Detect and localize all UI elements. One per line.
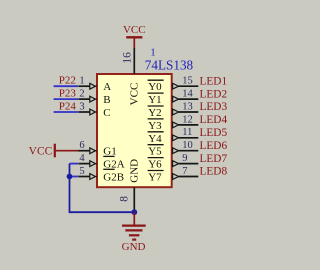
part number 74LS138 [145, 57, 194, 72]
svg-text:B: B [103, 94, 110, 106]
wire net P22 [54, 85, 78, 87]
wire enable to ground (vertical+bottom) [70, 164, 135, 213]
pin 14 (Y1) [173, 89, 199, 103]
power port VCC top [123, 24, 146, 48]
svg-text:GND: GND [122, 241, 146, 253]
svg-text:LED1: LED1 [200, 75, 228, 87]
svg-text:G2B: G2B [103, 172, 124, 184]
svg-text:GND: GND [128, 159, 140, 183]
svg-text:LED8: LED8 [200, 166, 228, 178]
svg-text:16: 16 [121, 52, 133, 64]
pin name Y5 (active low) [148, 145, 164, 158]
svg-text:VCC: VCC [128, 83, 140, 106]
pin name Y6 (active low) [148, 158, 164, 171]
net label LED3 [200, 101, 228, 113]
svg-text:A: A [103, 81, 111, 93]
pin name VCC (vertical) [128, 83, 140, 106]
svg-text:P23: P23 [59, 88, 77, 100]
svg-text:LED5: LED5 [200, 127, 228, 139]
svg-text:Y1: Y1 [148, 94, 161, 106]
pin name C [103, 107, 110, 119]
pin 4 (G2A) [78, 153, 97, 167]
svg-text:4: 4 [79, 153, 85, 164]
pin name A [103, 81, 111, 93]
pin 11 (Y4) [173, 127, 199, 141]
svg-text:10: 10 [182, 140, 193, 151]
pin name B [103, 94, 110, 106]
pin name Y1 (active low) [148, 93, 164, 106]
wire G2B stub [70, 176, 79, 178]
svg-text:LED4: LED4 [200, 114, 228, 126]
svg-text:74LS138: 74LS138 [145, 57, 194, 72]
pin name Y0 (active low) [148, 80, 164, 93]
svg-text:LED7: LED7 [200, 153, 228, 165]
pin 2 (B) [78, 89, 97, 103]
net label LED4 [200, 114, 228, 126]
svg-text:LED2: LED2 [200, 88, 228, 100]
svg-text:Y2: Y2 [148, 107, 161, 119]
svg-text:7: 7 [182, 166, 187, 177]
svg-text:VCC: VCC [29, 145, 53, 157]
net label LED5 [200, 127, 228, 139]
pin 6 (G1) [78, 140, 97, 154]
pin 15 (Y0) [173, 76, 199, 90]
svg-text:6: 6 [79, 140, 84, 151]
svg-text:VCC: VCC [123, 24, 146, 36]
pin 16 VCC [121, 48, 134, 74]
svg-text:Y3: Y3 [148, 120, 162, 132]
wire net P24 [54, 111, 78, 113]
net label LED1 [200, 75, 228, 87]
net label LED6 [200, 140, 228, 152]
junction at pin 8 / ground [131, 209, 137, 215]
wire G2A stub [70, 163, 79, 165]
pin 9 (Y6) [173, 153, 199, 167]
svg-text:Y6: Y6 [148, 159, 162, 171]
power port VCC left [29, 144, 55, 158]
pin name Y3 (active low) [148, 119, 164, 132]
svg-text:Y7: Y7 [148, 172, 162, 184]
net label P22 [59, 75, 76, 87]
pin 5 (G2B) [78, 166, 97, 180]
net label LED2 [200, 88, 228, 100]
svg-text:1: 1 [79, 76, 84, 87]
svg-text:12: 12 [182, 114, 193, 125]
pin 8 GND [119, 187, 135, 212]
svg-text:8: 8 [119, 196, 131, 202]
wire VCC to pin 6 [55, 150, 79, 152]
ground symbol GND [122, 212, 146, 253]
svg-text:Y5: Y5 [148, 146, 162, 158]
pin 13 (Y2) [173, 101, 199, 115]
pin name G2A (active low) [103, 156, 124, 170]
designator 1 [150, 47, 156, 59]
svg-text:Y4: Y4 [148, 133, 162, 145]
pin 12 (Y3) [173, 114, 199, 128]
pin 7 (Y7) [173, 166, 199, 180]
pin name Y2 (active low) [148, 106, 164, 119]
svg-text:P24: P24 [59, 100, 77, 112]
pin name GND (vertical) [128, 159, 140, 183]
svg-text:P22: P22 [59, 75, 76, 87]
svg-text:5: 5 [79, 166, 84, 177]
svg-text:2: 2 [79, 89, 84, 100]
pin name Y4 (active low) [148, 132, 164, 145]
net label LED8 [200, 166, 228, 178]
svg-text:14: 14 [182, 89, 193, 100]
svg-text:13: 13 [182, 101, 193, 112]
pin 3 (C) [78, 101, 97, 115]
svg-text:9: 9 [182, 153, 187, 164]
svg-text:LED6: LED6 [200, 140, 228, 152]
pin 1 (A) [78, 76, 97, 90]
svg-text:Y0: Y0 [148, 81, 162, 93]
net label P23 [59, 88, 77, 100]
pin name G1 [103, 146, 116, 158]
svg-text:3: 3 [79, 101, 84, 112]
net label P24 [59, 100, 77, 112]
svg-text:C: C [103, 107, 110, 119]
pin name Y7 (active low) [148, 171, 164, 184]
IC U1 74LS138 body [97, 74, 172, 187]
pin name G2B (active low) [103, 169, 124, 183]
net label LED7 [200, 153, 228, 165]
svg-text:11: 11 [182, 127, 192, 138]
svg-text:LED3: LED3 [200, 101, 228, 113]
junction at G2B [67, 174, 73, 180]
wire net P23 [54, 98, 78, 100]
pin 10 (Y5) [173, 140, 199, 154]
svg-text:15: 15 [182, 76, 193, 87]
